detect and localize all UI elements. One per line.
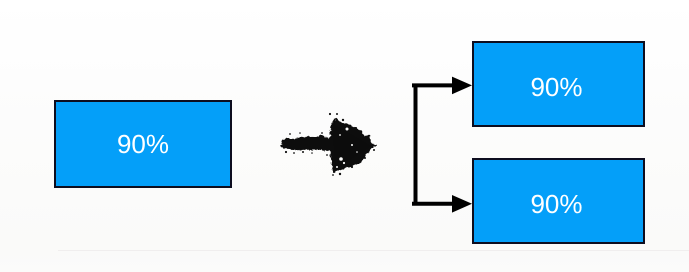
grunge arrow specks	[282, 113, 375, 176]
wire: bracket vertical segment	[414, 85, 418, 203]
arrowhead bottom branch	[452, 195, 472, 213]
box top-right 90%	[472, 41, 645, 127]
box bottom-right 90%	[472, 158, 645, 244]
wire: bottom branch horizontal segment	[412, 202, 456, 206]
box left 90%	[54, 100, 232, 188]
hand-drawn grunge arrow (center, pointing right)	[281, 119, 375, 172]
arrowhead top branch	[452, 77, 472, 95]
wire: top branch horizontal segment	[412, 83, 456, 87]
faint bottom rule	[58, 250, 689, 251]
grunge arrow texture holes	[336, 128, 358, 169]
